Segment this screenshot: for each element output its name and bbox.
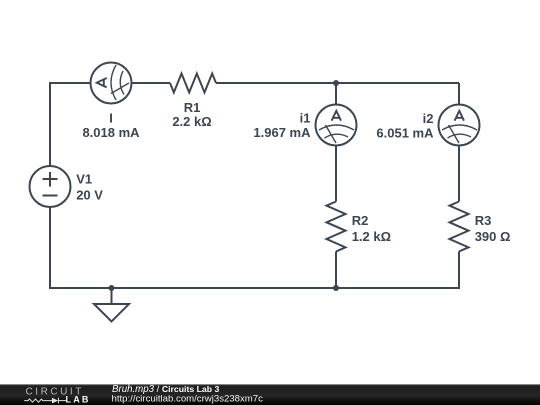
svg-text:http://circuitlab.com/crwj3s23: http://circuitlab.com/crwj3s238xm7c: [112, 393, 264, 404]
svg-text:6.051 mA: 6.051 mA: [376, 126, 434, 141]
svg-text:I: I: [109, 110, 113, 125]
wire top node to i1: [335, 83, 337, 105]
meter face I: [97, 65, 129, 100]
wire R3 to bottom rail, bottom rail to V1: [50, 207, 459, 289]
wire ammeter I to R1: [132, 82, 171, 84]
junction node bottom: [333, 285, 339, 291]
svg-text:V1: V1: [76, 172, 92, 187]
svg-text:8.018 mA: 8.018 mA: [82, 125, 140, 140]
svg-text:R1: R1: [184, 100, 201, 115]
svg-text:R2: R2: [352, 213, 369, 228]
wire R2 to bottom rail: [335, 252, 337, 289]
ground stub: [111, 288, 113, 304]
svg-text:i2: i2: [423, 111, 434, 126]
svg-text:20 V: 20 V: [76, 188, 103, 203]
wire top-right corner to i2: [458, 83, 460, 105]
wire top-left corner to V1: [50, 83, 91, 167]
svg-text:390 Ω: 390 Ω: [475, 229, 511, 244]
resistor R3: [450, 202, 469, 252]
meter face i2: [442, 111, 477, 143]
meter face i1: [319, 111, 354, 143]
wire R1 to top-right corner: [216, 82, 459, 84]
footer bar: [0, 384, 540, 405]
junction node ground: [109, 285, 115, 291]
svg-text:i1: i1: [300, 110, 311, 125]
logo resistor zigzag: [24, 398, 66, 404]
svg-text:1.967 mA: 1.967 mA: [253, 125, 311, 140]
ground triangle: [94, 304, 129, 322]
resistor R1: [170, 74, 216, 93]
svg-text:1.2 kΩ: 1.2 kΩ: [352, 229, 391, 244]
wire i1 to R2: [335, 146, 337, 202]
ammeter i1: [316, 105, 357, 146]
svg-text:LAB: LAB: [66, 395, 91, 405]
ammeter i2: [439, 105, 480, 146]
logo diode: [52, 398, 58, 404]
voltage source V1: [30, 166, 71, 207]
ammeter I: [91, 63, 132, 104]
svg-text:R3: R3: [475, 213, 492, 228]
wire i2 to R3: [458, 146, 460, 202]
resistor R2: [327, 202, 346, 252]
junction node top: [333, 80, 339, 86]
svg-text:2.2 kΩ: 2.2 kΩ: [172, 114, 211, 129]
